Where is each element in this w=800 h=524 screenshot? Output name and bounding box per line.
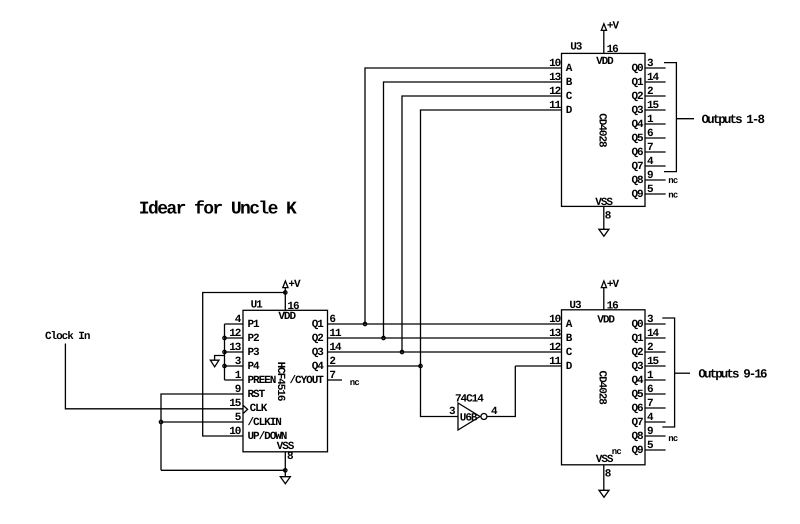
svg-text:U1: U1 (251, 299, 264, 311)
svg-text:7: 7 (647, 142, 653, 154)
node junction dot (VSS ground tie) (284, 469, 287, 472)
power +V symbol (U1) (283, 281, 288, 288)
IC U3 upper pin 8 wire (603, 206, 605, 229)
svg-text:Q9: Q9 (631, 445, 643, 457)
wire Q1 to decoder A row (328, 323, 562, 325)
svg-text:Q0: Q0 (631, 63, 643, 75)
svg-text:Q8: Q8 (631, 431, 644, 443)
ground symbol (preset bus) (210, 360, 219, 367)
node junction dot (+V / UP-DOWN tie) (284, 291, 287, 294)
svg-text:C: C (566, 91, 573, 103)
svg-text:nc: nc (668, 176, 678, 186)
inverter U6B triangle (458, 403, 480, 430)
IC U3 upper pin Q2 stub wire (645, 95, 666, 97)
svg-text:A: A (566, 319, 573, 331)
IC U3 lower pin Q6 stub wire (645, 407, 666, 409)
svg-text:8: 8 (605, 210, 612, 222)
IC U3 lower pin Q2 stub wire (645, 351, 666, 353)
wire /CLKIN stub (161, 421, 243, 423)
ground symbol (U1 VSS) (280, 477, 290, 484)
svg-text:Q2: Q2 (631, 347, 643, 359)
svg-text:PREEN: PREEN (248, 375, 276, 387)
svg-text:Q3: Q3 (631, 105, 644, 117)
svg-text:VDD: VDD (278, 311, 296, 323)
bracket lead wire (outputs 9-16) (675, 372, 690, 374)
svg-text:Q6: Q6 (631, 403, 643, 415)
bracket outputs 1-8 (664, 63, 676, 172)
svg-text:Outputs 9-16: Outputs 9-16 (698, 367, 767, 381)
wire Q4 row (328, 365, 421, 367)
wire Q4 tap down to inverter input (421, 366, 459, 417)
svg-text:Q8: Q8 (631, 175, 644, 187)
svg-text:6: 6 (647, 128, 653, 140)
wire C tap to upper C (402, 96, 562, 352)
svg-text:Q1: Q1 (631, 77, 644, 89)
node junction dot (Q4 tap) (419, 364, 422, 367)
svg-text:D: D (566, 105, 573, 117)
svg-text:nc: nc (350, 378, 360, 388)
svg-text:+V: +V (288, 279, 301, 291)
svg-text:Outputs 1-8: Outputs 1-8 (702, 113, 765, 127)
svg-text:7: 7 (647, 398, 653, 410)
svg-text:6: 6 (647, 384, 653, 396)
wire D tap to upper D (421, 110, 562, 366)
wire RST left (161, 394, 243, 470)
svg-text:16: 16 (607, 44, 619, 56)
IC U1 clock input chevron (243, 405, 247, 413)
svg-text:Q0: Q0 (631, 319, 643, 331)
ground symbol (upper U3) (599, 229, 609, 236)
svg-text:9: 9 (647, 426, 653, 438)
svg-text:Q2: Q2 (312, 333, 324, 345)
wire PREEN stub (225, 379, 244, 381)
svg-text:/CYOUT: /CYOUT (289, 375, 324, 387)
IC U3 lower pin Q4 stub wire (645, 379, 666, 381)
svg-text:P2: P2 (248, 333, 260, 345)
IC U1 pin 16 wire (284, 288, 286, 310)
svg-text:P4: P4 (248, 361, 261, 373)
svg-text:Q3: Q3 (312, 347, 325, 359)
node junction dot (CLKIN tie) (159, 420, 162, 423)
svg-text:HCF4516: HCF4516 (274, 362, 286, 401)
svg-text:CD4028: CD4028 (596, 371, 608, 406)
node junction dot (Q1 tap) (363, 322, 366, 325)
IC U3 upper pin Q0 stub wire (645, 67, 666, 69)
IC U3 lower pin Q8 stub wire (645, 435, 666, 437)
IC U3 upper pin Q7 stub wire (645, 165, 666, 167)
power +V symbol (upper U3) (601, 24, 606, 31)
wire clock input (65, 344, 243, 409)
svg-text:16: 16 (607, 300, 619, 312)
svg-text:9: 9 (647, 170, 653, 182)
svg-text:+V: +V (607, 21, 620, 33)
svg-text:2: 2 (647, 86, 653, 98)
ground symbol (lower U3) (599, 490, 609, 497)
node junction dot (Q3 tap) (400, 350, 403, 353)
svg-text:14: 14 (647, 72, 660, 84)
node junction dot (Q2 tap) (382, 336, 385, 339)
IC U3 upper pin Q5 stub wire (645, 137, 666, 139)
IC U3 upper pin Q6 stub wire (645, 151, 666, 153)
svg-text:U6B: U6B (460, 413, 478, 425)
wire P1 stub (225, 323, 244, 325)
wire inverter output (487, 366, 515, 417)
wire P2 stub (225, 337, 244, 339)
wire inverter output to lower D (515, 365, 561, 367)
wire Q3 to decoder C row (328, 351, 562, 353)
IC U1 pin 8 wire (284, 452, 286, 477)
svg-text:Q5: Q5 (631, 389, 644, 401)
svg-text:Q7: Q7 (631, 417, 643, 429)
svg-text:U3: U3 (569, 300, 582, 312)
svg-text:Q6: Q6 (631, 147, 643, 159)
svg-text:RST: RST (248, 389, 266, 401)
power +V symbol (lower U3) (601, 281, 606, 288)
svg-text:74C14: 74C14 (455, 394, 484, 406)
svg-text:Q5: Q5 (631, 133, 644, 145)
svg-text:2: 2 (647, 342, 653, 354)
IC U3 lower pin Q5 stub wire (645, 393, 666, 395)
svg-text:Q1: Q1 (312, 319, 325, 331)
IC U3 (upper CD4028) box (562, 53, 646, 206)
IC U3 upper pin Q8 stub wire (645, 179, 666, 181)
svg-text:Idear for Uncle K: Idear for Uncle K (139, 200, 297, 220)
node junction dot (P4 bus) (223, 364, 226, 367)
IC U3 upper pin Q3 stub wire (645, 109, 666, 111)
svg-text:CD4028: CD4028 (596, 113, 608, 148)
svg-text:15: 15 (647, 100, 660, 112)
IC U3 lower pin 16 wire (603, 288, 605, 310)
svg-text:8: 8 (605, 468, 612, 480)
svg-text:Q7: Q7 (631, 161, 643, 173)
IC U1 (HCF4516) box (243, 310, 328, 452)
svg-text:nc: nc (668, 434, 678, 444)
svg-text:D: D (566, 361, 573, 373)
svg-text:Q4: Q4 (312, 361, 325, 373)
svg-text:Q3: Q3 (631, 361, 644, 373)
IC U1 /CYOUT stub wire (328, 379, 343, 381)
IC U3 lower pin Q1 stub wire (645, 337, 666, 339)
wire P4 stub (225, 365, 244, 367)
svg-text:U3: U3 (570, 41, 583, 53)
IC U3 upper pin Q9 stub wire (645, 193, 666, 195)
inverter U6B output bubble (481, 414, 487, 420)
IC U3 lower pin Q7 stub wire (645, 421, 666, 423)
bracket lead wire (outputs 1-8) (676, 118, 694, 120)
svg-text:Q1: Q1 (631, 333, 644, 345)
wire UP/DOWN to +V rail (203, 293, 286, 437)
svg-text:14: 14 (647, 328, 660, 340)
wire preset bus vertical (224, 324, 226, 380)
IC U3 lower pin Q3 stub wire (645, 365, 666, 367)
IC U3 (lower CD4028) box (562, 310, 646, 465)
svg-text:B: B (566, 77, 573, 89)
node junction dot (P2 bus) (223, 336, 226, 339)
svg-text:B: B (566, 333, 573, 345)
IC U3 lower pin 8 wire (603, 465, 605, 491)
wire preset-bus ground branch (215, 356, 225, 361)
svg-text:C: C (566, 347, 573, 359)
IC U3 lower pin Q9 stub wire (645, 449, 666, 451)
wire Q2 to decoder B row (328, 337, 562, 339)
svg-text:VDD: VDD (597, 314, 615, 326)
svg-text:VDD: VDD (596, 56, 614, 68)
svg-text:VSS: VSS (596, 454, 614, 466)
svg-text:Q9: Q9 (631, 189, 643, 201)
svg-text:/CLKIN: /CLKIN (248, 417, 282, 429)
svg-text:P1: P1 (248, 319, 261, 331)
IC U3 upper pin 16 wire (603, 30, 605, 53)
svg-text:nc: nc (612, 447, 622, 457)
svg-text:Q4: Q4 (631, 375, 644, 387)
svg-text:Clock In: Clock In (45, 331, 90, 343)
svg-text:Q4: Q4 (631, 119, 644, 131)
svg-text:Q2: Q2 (631, 91, 643, 103)
IC U3 lower pin Q0 stub wire (645, 323, 666, 325)
svg-text:A: A (566, 63, 573, 75)
svg-text:15: 15 (647, 356, 660, 368)
wire A tap to upper A (365, 68, 562, 324)
svg-text:nc: nc (668, 191, 678, 201)
wire P3 stub (225, 351, 244, 353)
wire B tap to upper B (384, 82, 562, 338)
svg-text:P3: P3 (248, 347, 261, 359)
svg-text:CLK: CLK (250, 403, 268, 415)
svg-text:+V: +V (607, 279, 620, 291)
IC U3 upper pin Q1 stub wire (645, 81, 666, 83)
node junction dot (P3 bus) (223, 350, 226, 353)
IC U3 upper pin Q4 stub wire (645, 123, 666, 125)
wire ground tie to VSS (161, 469, 285, 471)
bracket outputs 9-16 (662, 318, 674, 427)
